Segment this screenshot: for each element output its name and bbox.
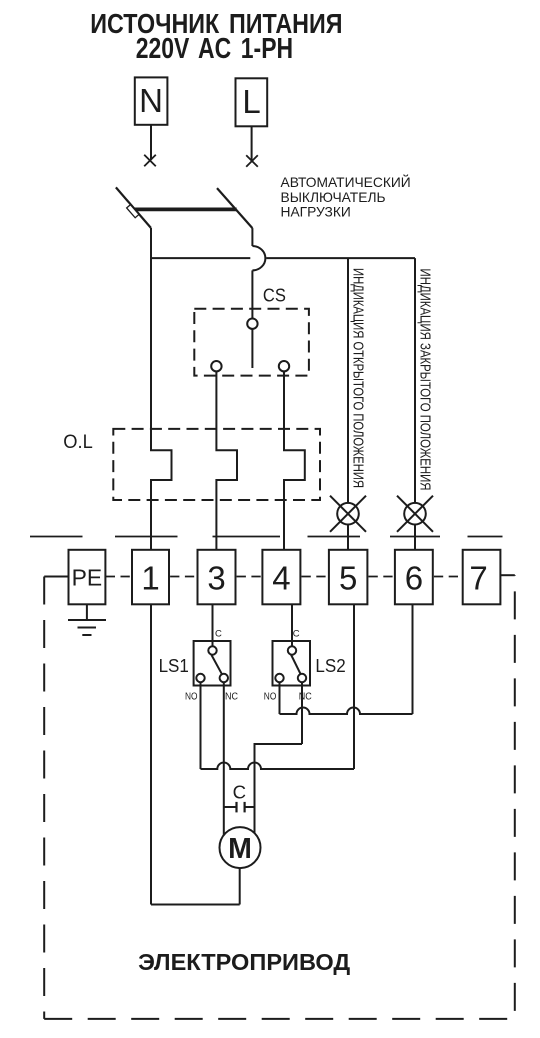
svg-text:NO: NO: [185, 692, 198, 703]
svg-text:5: 5: [339, 560, 357, 597]
svg-text:O.L: O.L: [63, 431, 93, 453]
svg-text:ИНДИКАЦИЯ ЗАКРЫТОГО ПОЛОЖЕНИЯ: ИНДИКАЦИЯ ЗАКРЫТОГО ПОЛОЖЕНИЯ: [417, 269, 433, 491]
svg-text:7: 7: [469, 560, 487, 597]
svg-text:PE: PE: [72, 565, 103, 591]
svg-text:6: 6: [405, 560, 423, 597]
svg-text:C: C: [233, 782, 246, 803]
svg-text:220V AC 1-PH: 220V AC 1-PH: [136, 33, 293, 65]
svg-text:NC: NC: [225, 692, 238, 703]
svg-text:3: 3: [207, 560, 225, 597]
svg-text:M: M: [228, 833, 252, 865]
svg-text:ИНДИКАЦИЯ ОТКРЫТОГО ПОЛОЖЕНИЯ: ИНДИКАЦИЯ ОТКРЫТОГО ПОЛОЖЕНИЯ: [350, 268, 366, 488]
svg-text:CS: CS: [263, 285, 286, 305]
svg-text:LS2: LS2: [315, 655, 345, 676]
svg-text:C: C: [215, 628, 222, 639]
svg-text:ВЫКЛЮЧАТЕЛЬ: ВЫКЛЮЧАТЕЛЬ: [281, 190, 386, 205]
svg-text:НАГРУЗКИ: НАГРУЗКИ: [281, 205, 351, 220]
svg-text:1: 1: [141, 560, 159, 597]
svg-text:L: L: [242, 83, 260, 120]
svg-text:LS1: LS1: [159, 655, 189, 676]
svg-text:NC: NC: [299, 692, 312, 703]
svg-text:N: N: [139, 82, 163, 119]
svg-text:АВТОМАТИЧЕСКИЙ: АВТОМАТИЧЕСКИЙ: [281, 173, 411, 190]
svg-text:ЭЛЕКТРОПРИВОД: ЭЛЕКТРОПРИВОД: [138, 949, 350, 975]
svg-text:NO: NO: [264, 692, 277, 703]
svg-text:C: C: [293, 628, 300, 639]
svg-text:4: 4: [272, 560, 290, 597]
